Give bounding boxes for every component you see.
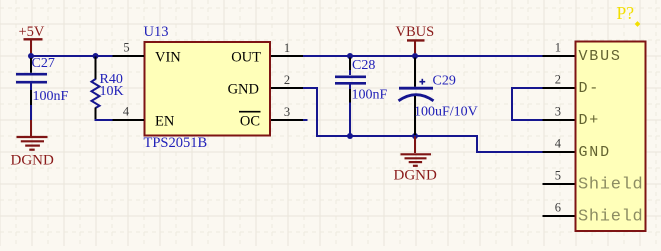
capacitor C28 bbox=[335, 58, 366, 136]
P? pin 2 D- bbox=[543, 73, 601, 98]
P? pin 6 Shield bbox=[543, 201, 644, 227]
svg-text:DGND: DGND bbox=[394, 167, 437, 183]
junction C28 top bbox=[347, 53, 353, 59]
P? designator label bbox=[617, 3, 641, 27]
svg-text:TPS2051B: TPS2051B bbox=[144, 135, 208, 151]
junction C28 bottom bbox=[347, 133, 353, 139]
capacitor C27 bbox=[16, 57, 47, 107]
capacitor C29 polarized bbox=[399, 58, 434, 136]
svg-text:VIN: VIN bbox=[155, 49, 181, 65]
junction R40 top bbox=[93, 53, 99, 59]
resistor R40 bbox=[92, 57, 100, 122]
junction C29 bottom / DGND bbox=[412, 133, 418, 139]
U13 pin 2 GND bbox=[228, 73, 303, 97]
connector P? USB bbox=[576, 42, 646, 232]
U13 pin 5 VIN bbox=[113, 41, 182, 66]
P? pin 4 GND bbox=[543, 137, 611, 162]
IC U13 TPS2051B bbox=[145, 42, 271, 136]
svg-text:100uF/10V: 100uF/10V bbox=[414, 104, 478, 119]
wire +5V rail to VIN bbox=[30, 55, 113, 57]
svg-text:2: 2 bbox=[555, 73, 561, 87]
wire OUT to VBUS pin1 bbox=[303, 55, 544, 57]
svg-text:5: 5 bbox=[123, 41, 129, 55]
svg-text:4: 4 bbox=[555, 137, 562, 151]
wire OC stub bbox=[303, 119, 308, 121]
wire C27 to ground bbox=[30, 105, 32, 121]
U13 pin 3 OC (active low) bbox=[239, 105, 303, 129]
svg-text:U13: U13 bbox=[144, 24, 169, 40]
svg-text:OUT: OUT bbox=[231, 49, 261, 65]
svg-text:GND: GND bbox=[228, 81, 259, 97]
svg-text:VBUS: VBUS bbox=[579, 48, 622, 65]
svg-text:DGND: DGND bbox=[11, 152, 54, 168]
svg-text:VBUS: VBUS bbox=[396, 24, 435, 40]
svg-text:C28: C28 bbox=[352, 58, 375, 73]
svg-text:OC: OC bbox=[240, 113, 260, 129]
P? pin 5 Shield bbox=[543, 169, 644, 195]
svg-text:Shield: Shield bbox=[578, 208, 643, 227]
svg-text:P?: P? bbox=[617, 3, 635, 23]
svg-text:GND: GND bbox=[579, 144, 611, 161]
svg-text:1: 1 bbox=[284, 41, 290, 55]
svg-text:D-: D- bbox=[579, 80, 601, 97]
junction C29/VBUS bbox=[412, 53, 418, 59]
svg-text:+5V: +5V bbox=[19, 24, 45, 40]
svg-text:C27: C27 bbox=[32, 56, 55, 71]
svg-text:3: 3 bbox=[555, 105, 561, 119]
svg-text:3: 3 bbox=[284, 105, 290, 119]
svg-text:4: 4 bbox=[123, 105, 130, 119]
junction +5V/C27 bbox=[28, 53, 34, 59]
svg-text:6: 6 bbox=[555, 201, 561, 215]
power port +5V bbox=[19, 24, 45, 56]
wire GND pin2 to rail bbox=[303, 88, 544, 152]
svg-text:Shield: Shield bbox=[578, 176, 643, 195]
ground DGND left bbox=[11, 120, 54, 168]
wire R40 to EN bbox=[95, 119, 113, 121]
svg-text:1: 1 bbox=[555, 41, 561, 55]
U13 pin 1 OUT bbox=[231, 41, 303, 65]
svg-text:EN: EN bbox=[155, 113, 175, 129]
ground DGND right bbox=[394, 137, 437, 184]
svg-text:10K: 10K bbox=[100, 84, 124, 99]
svg-text:C29: C29 bbox=[433, 73, 456, 88]
P? pin 3 D+ bbox=[543, 105, 601, 130]
power port VBUS bbox=[396, 24, 435, 54]
svg-text:100nF: 100nF bbox=[33, 89, 69, 104]
svg-text:5: 5 bbox=[555, 169, 561, 183]
svg-text:2: 2 bbox=[284, 73, 290, 87]
P? pin 1 VBUS bbox=[543, 41, 622, 66]
svg-text:D+: D+ bbox=[579, 112, 601, 129]
wire shorting D- and D+ bbox=[512, 88, 544, 120]
svg-text:100nF: 100nF bbox=[352, 88, 388, 103]
U13 pin 4 EN bbox=[113, 105, 175, 130]
